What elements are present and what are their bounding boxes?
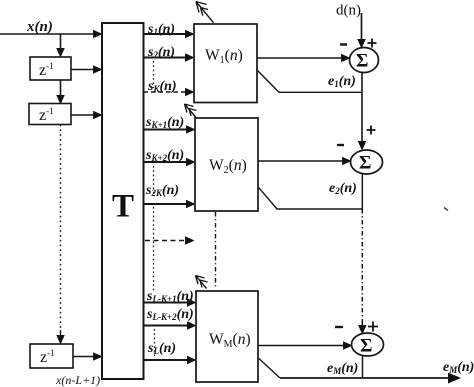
wire eM output [280, 377, 448, 379]
svg-text:x(n-L+1): x(n-L+1) [55, 373, 100, 387]
wire sL-K+1 [144, 302, 189, 304]
svg-text:W1(n): W1(n) [205, 47, 243, 66]
svg-text:e2(n): e2(n) [329, 181, 357, 196]
wire dashed continuation arrow [145, 240, 186, 242]
delay block z2 [29, 104, 71, 125]
filter block W2 [195, 118, 258, 211]
sum node S3 [352, 333, 384, 356]
delay block z3 [30, 344, 73, 368]
wire sK dashed [144, 91, 187, 93]
wire WM to sum3 [258, 345, 344, 347]
adaptation arrow W1 [196, 2, 214, 23]
wire z1 to T [71, 69, 94, 71]
wire z2 to T [71, 114, 94, 116]
wire e1 feedback to W1 [257, 70, 362, 92]
svg-text:sL-K+2(n): sL-K+2(n) [146, 307, 194, 322]
wire s2K [144, 203, 188, 205]
wire dotted z2 to z3 [60, 125, 62, 331]
svg-text:sK+1(n): sK+1(n) [145, 115, 184, 130]
wire z3 to T [73, 356, 94, 358]
wire z1 to z2 [60, 80, 62, 96]
filter block W1 [194, 24, 257, 103]
wire W1 to sum1 [257, 57, 342, 59]
wire sum1 down to sum2 [361, 73, 363, 143]
dotted ellipsis sL-K+2..sL [154, 329, 156, 356]
wire sL-K+2 [144, 325, 189, 327]
svg-text:d(n): d(n) [336, 3, 361, 19]
scan speck [444, 208, 448, 211]
wire sum2 down solid then e2 junction [361, 174, 363, 209]
wire junction drop to z1 [60, 34, 62, 49]
wire sK+1 [144, 129, 188, 131]
wire dash-dot sum2 to sum3 [361, 209, 363, 322]
dotted ellipsis sK+2..s2K [153, 166, 155, 196]
wire d(n) down to sum1 [361, 13, 363, 40]
wire s2 [144, 57, 187, 59]
wire sK+2 [144, 161, 188, 163]
adaptation arrow WM [196, 276, 208, 289]
svg-text:Σ: Σ [360, 336, 372, 357]
dotted ellipsis s2..sK [153, 61, 155, 88]
filter block WM [196, 291, 258, 382]
wire sum3 down to output line [362, 356, 364, 378]
wire eM feedback to WM [259, 359, 280, 379]
wire W2 to sum2 [258, 160, 343, 162]
svg-text:Σ: Σ [356, 51, 368, 72]
wire sL [144, 359, 189, 361]
svg-text:sL(n): sL(n) [147, 341, 176, 356]
adaptation arrow W2 [185, 104, 197, 118]
svg-text:T: T [112, 189, 134, 225]
dash-dot vertical between W2 and WM [215, 212, 217, 287]
transform block T [102, 23, 144, 379]
sum node S1 [350, 48, 379, 73]
svg-text:e1(n): e1(n) [328, 74, 356, 89]
sum node S2 [351, 150, 383, 174]
svg-text:sK+2(n): sK+2(n) [145, 148, 184, 163]
wire e2 feedback to W2 [259, 188, 363, 209]
svg-text:eM(n): eM(n) [443, 360, 474, 375]
wire s1 [144, 33, 187, 35]
svg-text:Σ: Σ [359, 153, 371, 174]
delay block z1 [30, 57, 71, 80]
svg-text:s2K(n): s2K(n) [145, 183, 179, 198]
dotted ellipsis s2K..sL-K+1 [153, 207, 155, 292]
svg-text:x(n): x(n) [26, 19, 53, 35]
svg-text:eM(n): eM(n) [327, 361, 358, 376]
wire x(n) input [0, 33, 94, 35]
svg-text:W2(n): W2(n) [209, 157, 247, 176]
